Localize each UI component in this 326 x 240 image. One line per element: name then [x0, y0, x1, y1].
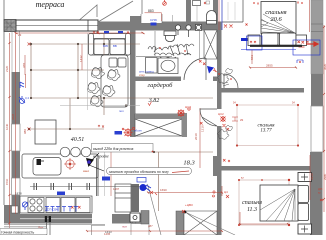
svg-text:1640: 1640 — [5, 123, 9, 130]
svg-text:В05: В05 — [103, 44, 108, 48]
annotation text vyhod 220 — [92, 144, 154, 159]
blue box VV — [102, 177, 110, 181]
blue switch symbols left wall — [19, 82, 25, 104]
bath east wall upper — [217, 24, 222, 109]
bottom counter line — [20, 196, 92, 213]
bottom-left corner block + band to terrace door — [4, 205, 92, 224]
nightstand 11.3 bottom — [298, 224, 312, 234]
nightstand 20.6 left — [248, 35, 260, 46]
bedroom 20.6 red scribble left — [250, 41, 256, 46]
red line next to blue at bedroom20.6 left — [218, 0, 220, 30]
dark blue floor outlet blob — [140, 184, 158, 195]
svg-text:23: 23 — [18, 33, 22, 37]
red dim vertical at x111 — [110, 148, 112, 196]
svg-text:1690: 1690 — [160, 188, 167, 192]
bottom center wall column — [176, 211, 184, 235]
right margin rotated dims — [323, 63, 326, 180]
kitchen blue marks on counter — [45, 207, 78, 212]
bath east wall below door — [217, 126, 222, 163]
terrace roof diagonal 1 — [70, 5, 97, 28]
svg-text:ЦС2: ЦС2 — [218, 112, 224, 116]
bedroom 20.6 blue dim box right — [293, 40, 320, 55]
svg-text:сеть освещ: сеть освещ — [139, 70, 154, 74]
bedroom 20.6 south wall — [221, 88, 304, 93]
bottom pier dark — [112, 214, 131, 224]
right wall dark segment 1 — [311, 74, 323, 106]
red lamp symbol top — [163, 0, 167, 5]
svg-text:883: 883 — [148, 9, 154, 13]
red marks left of divider wall — [223, 159, 230, 162]
red texts small dims — [18, 33, 205, 207]
svg-text:11.3: 11.3 — [247, 207, 257, 213]
svg-text:монтаж проводов обозначен по п: монтаж проводов обозначен по полу — [108, 170, 169, 174]
bedroom 13.77 starburst — [221, 116, 226, 122]
dark pantry block — [131, 184, 139, 212]
corridor blue triangle — [207, 66, 214, 74]
svg-text:843: 843 — [250, 55, 254, 60]
bedroom 20.6 bed — [261, 2, 296, 46]
niche side borders — [141, 14, 162, 23]
red x marks top right — [224, 24, 248, 28]
svg-text:1495: 1495 — [104, 232, 111, 235]
svg-text:гардероб: гардероб — [148, 82, 174, 89]
svg-text:СУ06: СУ06 — [150, 18, 157, 22]
bedroom 20.6 door arc — [224, 74, 238, 88]
sofa top — [89, 34, 131, 56]
svg-text:ЦС3: ЦС3 — [185, 105, 191, 109]
gardrobe north wall — [135, 77, 181, 82]
svg-text:3228: 3228 — [11, 113, 15, 120]
gardrobe west wall — [130, 29, 136, 137]
svg-text:2855: 2855 — [266, 64, 273, 68]
wiring node dots — [28, 43, 155, 153]
terrace door gap side lines — [12, 32, 20, 73]
svg-text:встройке: встройке — [93, 154, 109, 159]
left window frames — [12, 124, 21, 151]
washing niche — [146, 58, 158, 74]
svg-text:1497: 1497 — [113, 187, 120, 191]
svg-text:40.51: 40.51 — [71, 136, 85, 143]
chandelier starburst living — [122, 127, 135, 137]
corner block white notch — [12, 206, 19, 213]
bottom center wall piece — [141, 211, 149, 225]
wall fixtures circles — [175, 25, 201, 38]
left outer wall segments — [12, 72, 21, 124]
wall stub above bath — [186, 0, 191, 23]
light vertical at x104.5 — [104, 150, 106, 196]
basin — [158, 58, 178, 74]
counter side double line — [97, 158, 99, 196]
door posts in bottom wall — [45, 216, 47, 222]
light horizontal at y105 — [60, 105, 140, 107]
svg-text:обозн: обозн — [134, 129, 142, 133]
svg-text:1510: 1510 — [5, 178, 9, 185]
bedroom 13.77 red corner dots — [236, 104, 299, 147]
closet niche with X — [135, 113, 187, 137]
svg-text:3.82: 3.82 — [148, 98, 160, 104]
terrace roof diagonal 2 — [98, 1, 133, 22]
cooktop red target — [64, 158, 76, 170]
svg-text:ВВ: ВВ — [113, 44, 117, 48]
bedroom 20.6 red scribble right — [298, 41, 309, 48]
bed footboard thick bar — [250, 45, 302, 47]
marks at right end of kitchen light line — [28, 43, 105, 131]
bottom pier hatched — [131, 214, 141, 224]
top wall band (kitchen/bath north wall) — [98, 22, 222, 31]
niche shelf line — [172, 15, 174, 22]
red marks near bath door — [199, 60, 206, 65]
bedroom 11.3 bed — [260, 185, 309, 221]
red/blue specks above sofa — [93, 32, 99, 34]
band lower edge thin lines — [4, 224, 105, 226]
blue bracket + red dot right — [297, 60, 303, 63]
svg-text:спальня: спальня — [265, 9, 286, 16]
bath annotation scribbles — [148, 44, 194, 59]
bedroom 11.3 red plus marks top — [212, 190, 229, 198]
svg-text:1216: 1216 — [201, 125, 205, 132]
svg-text:18.3: 18.3 — [183, 160, 195, 167]
long diagonal line 2 — [185, 212, 235, 235]
leader arrow black — [83, 153, 104, 173]
right facade light column — [311, 0, 323, 74]
svg-text:пол: пол — [122, 225, 127, 229]
blue line under bed — [241, 49, 296, 51]
bottom red dim second — [86, 230, 223, 232]
svg-text:р87: р87 — [148, 224, 153, 228]
wall pilaster at gardrobe wall top — [130, 16, 141, 31]
sink bowls circles — [60, 147, 91, 157]
svg-text:макс: макс — [83, 169, 90, 173]
left margin rotated dims — [5, 65, 15, 185]
bed 11.3 fold fan — [260, 189, 295, 221]
hatched corner block top-left — [4, 20, 16, 32]
svg-text:20.6: 20.6 — [270, 16, 282, 23]
kitchen island — [35, 120, 56, 144]
bath toilet 2 — [164, 31, 176, 42]
svg-text:3,4: 3,4 — [25, 96, 29, 100]
svg-text:Ц4: Ц4 — [224, 190, 228, 194]
nightstand 20.6 right — [296, 35, 307, 46]
corridor scribble cluster upper — [218, 69, 233, 87]
red mark right margin — [320, 199, 323, 201]
niche white cut above wall — [141, 14, 162, 23]
bed 20.6 fold fan — [261, 14, 295, 33]
red arrow into wall — [306, 42, 318, 46]
floor line with switch ticks — [30, 183, 140, 190]
svg-text:стир: стир — [139, 73, 145, 77]
bath toilet 1 (top niche) — [207, 11, 217, 24]
bath inner divider vertical — [154, 31, 156, 56]
stair void hatch bottom — [184, 211, 217, 235]
right column band lines — [311, 24, 323, 32]
closet line top bedroom — [242, 0, 244, 22]
svg-text:спальня: спальня — [242, 200, 262, 206]
bedrooms divider wall — [221, 166, 311, 171]
toilet niche east wall — [213, 0, 218, 26]
oven box with circle — [130, 213, 140, 222]
right wall dark segment 2 — [310, 152, 323, 235]
bedroom 11.3 dim rect — [239, 180, 289, 225]
terrace left edge line — [3, 0, 5, 205]
svg-text:выход 220в для розеток: выход 220в для розеток — [93, 146, 134, 151]
red marks near gardrobe door — [200, 122, 203, 125]
svg-text:1878: 1878 — [15, 192, 22, 196]
wiring lines living room — [29, 33, 213, 211]
bath mid divider — [136, 56, 172, 58]
terrace top vertical — [141, 0, 143, 16]
terrace door frame lines — [92, 225, 106, 235]
red cluster at diag start — [184, 211, 187, 214]
bedroom 20.6 blue rect around left nightstand — [247, 36, 263, 50]
svg-text:терраса: терраса — [36, 0, 65, 9]
bath vent shaft X — [204, 30, 217, 59]
svg-text:пол: пол — [119, 109, 124, 113]
right wall window — [311, 106, 323, 152]
blue socket box in niche — [151, 23, 157, 26]
gardrobe door arc — [200, 109, 217, 126]
chandelier red cluster hall — [177, 108, 190, 117]
terrace window band — [16, 20, 98, 31]
annotation pill montazh — [107, 168, 192, 175]
kitchen counter with sink — [22, 154, 98, 178]
plant scribbles — [88, 68, 121, 107]
svg-text:1432: 1432 — [79, 55, 83, 62]
corridor scribble cluster lower — [218, 126, 233, 140]
blue box on floor line — [57, 192, 65, 196]
svg-text:13.77: 13.77 — [260, 129, 272, 134]
svg-text:2120: 2120 — [5, 65, 9, 72]
svg-text:точная поверхность: точная поверхность — [1, 230, 34, 234]
bedroom 20.6 blue rect left — [241, 38, 248, 41]
dim 883 bath — [145, 9, 162, 22]
tall cabinet/fridge — [115, 184, 131, 212]
bath niche box top — [193, 1, 201, 6]
svg-text:ДСП·СВЧ: ДСП·СВЧ — [45, 208, 58, 212]
light vertical guide at sofa left — [87, 33, 89, 110]
svg-text:478: 478 — [22, 63, 26, 68]
chaise / long table — [101, 55, 128, 107]
svg-text:+ЦВ3: +ЦВ3 — [185, 203, 193, 207]
svg-text:2010: 2010 — [194, 133, 198, 140]
svg-text:2910: 2910 — [310, 173, 314, 180]
shower glass lines — [200, 31, 205, 59]
svg-text:ИК: ИК — [240, 119, 244, 122]
long diagonal line 1 — [148, 184, 162, 235]
hall west wall (bottom) — [217, 170, 222, 235]
bath door arc — [184, 58, 206, 80]
nightstand 11.3 top — [298, 173, 312, 182]
gardrobe door red marks — [223, 124, 230, 131]
svg-text:980: 980 — [23, 129, 27, 134]
